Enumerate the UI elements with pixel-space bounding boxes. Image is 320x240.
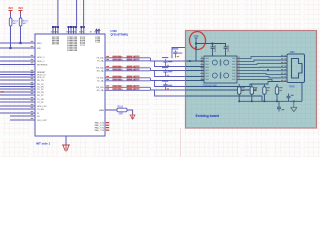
junction xyxy=(19,42,21,44)
junction xyxy=(189,60,191,62)
transformer T100 xyxy=(201,56,240,83)
svg-text:RX_2N: RX_2N xyxy=(37,92,44,94)
svg-text:J100: J100 xyxy=(290,52,296,54)
resistor R102 xyxy=(19,18,28,26)
pin numbers (red) xyxy=(106,56,109,60)
wire xyxy=(237,60,280,61)
svg-text:49R9 2B: 49R9 2B xyxy=(127,68,136,71)
junction xyxy=(264,100,266,102)
svg-text:MXI: MXI xyxy=(37,48,41,50)
junction xyxy=(212,43,214,45)
svg-text:RX_2P: RX_2P xyxy=(37,95,44,97)
resistor RT1 (termination) xyxy=(238,84,245,101)
wire xyxy=(127,110,133,115)
wire ground rail xyxy=(239,100,302,102)
wire xyxy=(0,74,35,76)
capacitor CT1 xyxy=(172,48,182,57)
MCU U100 body xyxy=(31,34,105,136)
wire xyxy=(83,0,85,27)
svg-text:Existing board: Existing board xyxy=(196,114,220,118)
junction xyxy=(9,47,11,49)
wire xyxy=(20,26,22,43)
net label xyxy=(113,85,124,91)
wire xyxy=(0,79,35,81)
wire xyxy=(0,86,35,88)
svg-text:TX_1A+: TX_1A+ xyxy=(96,57,104,60)
resistor RT3 (termination) xyxy=(263,84,270,101)
svg-text:TX_EN: TX_EN xyxy=(37,109,44,111)
svg-text:TX_2P: TX_2P xyxy=(37,102,44,104)
svg-text:49R9 4A: 49R9 4A xyxy=(127,85,136,88)
wire xyxy=(10,14,12,18)
svg-text:ETH_TX3P: ETH_TX3P xyxy=(113,86,124,88)
wire xyxy=(0,112,35,114)
svg-text:ETH_TX0N: ETH_TX0N xyxy=(113,59,124,61)
capacitor C114 xyxy=(287,94,294,102)
wire xyxy=(186,60,205,62)
svg-text:TX_2N: TX_2N xyxy=(37,99,44,101)
wire xyxy=(0,76,35,78)
top pin group 2 xyxy=(68,26,78,34)
wire xyxy=(186,80,205,82)
svg-text:ETH_TX1P: ETH_TX1P xyxy=(113,66,124,68)
power port 3V3 (right) xyxy=(18,6,23,14)
junction xyxy=(276,100,278,102)
svg-text:T100 HX1188: T100 HX1188 xyxy=(203,85,218,87)
wire xyxy=(151,58,186,61)
svg-text:INT side 1: INT side 1 xyxy=(36,141,51,145)
net label xyxy=(113,56,124,62)
wire xyxy=(0,42,35,44)
wire pair xyxy=(105,78,150,81)
svg-text:/PAD_TX3: /PAD_TX3 xyxy=(94,129,105,132)
svg-text:49R9 3B: 49R9 3B xyxy=(127,78,136,81)
wire xyxy=(0,83,35,85)
pin numbers (red) xyxy=(106,66,109,70)
pin numbers (red) xyxy=(106,122,109,131)
svg-text:R102: R102 xyxy=(23,20,29,22)
capacitor C115 xyxy=(277,101,284,111)
wire xyxy=(0,60,35,62)
resistor R103 xyxy=(117,106,127,115)
svg-text:3V3: 3V3 xyxy=(18,6,23,10)
wire xyxy=(0,47,35,49)
svg-text:49R9 1B: 49R9 1B xyxy=(127,58,136,61)
ground (region) xyxy=(291,101,297,111)
svg-text:R101: R101 xyxy=(13,20,19,22)
svg-text:RJ45: RJ45 xyxy=(289,87,295,89)
wire xyxy=(186,70,205,72)
resistor RT4 (termination) xyxy=(275,84,282,101)
junction xyxy=(238,100,240,102)
svg-text:MXO: MXO xyxy=(37,43,42,45)
wire xyxy=(237,57,280,59)
resistor R101 xyxy=(9,18,18,26)
wire xyxy=(20,14,22,18)
wire from J100 xyxy=(301,83,303,102)
svg-text:RX_1A-: RX_1A- xyxy=(97,70,105,73)
junction xyxy=(195,43,197,45)
wire pair xyxy=(105,68,150,71)
svg-text:CLK_OUT: CLK_OUT xyxy=(37,120,47,122)
capacitor CT2 xyxy=(162,57,172,66)
wire xyxy=(151,78,186,81)
wire xyxy=(237,80,280,82)
designator U100 xyxy=(111,29,129,36)
net label xyxy=(127,55,140,61)
wire xyxy=(237,70,280,72)
resistor RT2 (termination) xyxy=(250,84,257,101)
svg-text:QF5100TRMRQ: QF5100TRMRQ xyxy=(111,33,129,36)
svg-text:ETH_TX0P: ETH_TX0P xyxy=(113,56,124,58)
power port 3V3 (left) xyxy=(8,6,13,14)
wire xyxy=(237,77,280,78)
wire xyxy=(237,63,280,66)
svg-text:49R9 4B: 49R9 4B xyxy=(127,88,136,91)
svg-text:TX_1B+: TX_1B+ xyxy=(96,78,104,80)
wire xyxy=(76,0,78,27)
svg-text:ETH_TX2P: ETH_TX2P xyxy=(113,76,124,78)
junction xyxy=(251,100,253,102)
svg-text:ETH_TX3N: ETH_TX3N xyxy=(113,89,124,91)
svg-text:49R9 2A: 49R9 2A xyxy=(127,65,136,68)
junction xyxy=(195,47,197,49)
wire xyxy=(0,88,35,90)
svg-text:RX_1A+: RX_1A+ xyxy=(96,67,105,70)
wire riser to VDD rail xyxy=(172,48,196,59)
wire xyxy=(237,73,280,76)
top pin numbers xyxy=(51,30,99,33)
wire xyxy=(10,119,35,121)
net label xyxy=(113,66,124,72)
svg-text:RX_1B+: RX_1B+ xyxy=(96,87,105,89)
svg-text:GPS_CLK: GPS_CLK xyxy=(37,106,47,108)
wire xyxy=(105,109,117,111)
wire xyxy=(0,101,35,103)
wire xyxy=(151,87,186,90)
capacitor CT3 xyxy=(162,67,172,76)
svg-text:MEM: MEM xyxy=(99,110,104,112)
wire xyxy=(151,68,186,71)
wire to VDD xyxy=(57,0,59,27)
net label xyxy=(127,85,140,91)
net label xyxy=(113,76,124,82)
wire xyxy=(0,94,35,96)
wire xyxy=(186,66,205,68)
wire xyxy=(155,61,186,67)
wire xyxy=(237,66,280,68)
svg-text:TX_1B-: TX_1B- xyxy=(97,81,104,83)
no-connect pins xyxy=(95,29,100,34)
wire xyxy=(0,56,35,58)
wire xyxy=(195,41,197,62)
svg-text:49R9 3A: 49R9 3A xyxy=(127,75,136,78)
svg-text:R103: R103 xyxy=(118,106,124,108)
ground (earth) xyxy=(130,115,136,120)
svg-text:ETH_TX2N: ETH_TX2N xyxy=(113,79,124,81)
off-sheet marker xyxy=(1,91,4,92)
wire xyxy=(155,71,186,77)
wire xyxy=(186,88,257,90)
svg-text:ETH_TX1N: ETH_TX1N xyxy=(113,69,124,71)
svg-text:GPIO_1: GPIO_1 xyxy=(37,61,45,63)
wire power rail xyxy=(196,44,226,47)
wire xyxy=(155,81,186,87)
wire xyxy=(0,71,35,73)
wire xyxy=(186,76,205,78)
svg-text:33R: 33R xyxy=(119,114,124,116)
svg-text:RX_1N: RX_1N xyxy=(37,80,44,82)
pin numbers (red) xyxy=(106,85,109,89)
wire xyxy=(186,96,263,101)
designator T100 xyxy=(203,85,218,87)
connector J100 (RJ45) xyxy=(280,54,305,83)
wire pair xyxy=(105,87,150,90)
ground (earth) xyxy=(62,145,70,152)
wire xyxy=(0,105,35,107)
svg-text:TX_1P: TX_1P xyxy=(37,89,44,91)
svg-text:INT/PWDN: INT/PWDN xyxy=(37,64,48,66)
wire xyxy=(186,82,281,87)
existing-board region xyxy=(186,31,317,129)
annotation circle xyxy=(188,30,206,50)
junction xyxy=(293,100,295,102)
wire xyxy=(10,26,12,48)
wire xyxy=(0,98,35,100)
power port VDD (in region) xyxy=(193,35,198,41)
top pin group 1 xyxy=(52,26,59,34)
wire xyxy=(0,64,35,66)
pin numbers (red) xyxy=(106,76,109,80)
svg-text:3V3: 3V3 xyxy=(8,6,13,10)
wire xyxy=(10,115,35,117)
net label xyxy=(127,65,140,71)
junction xyxy=(267,69,269,71)
svg-text:RX_1B-: RX_1B- xyxy=(97,90,105,92)
svg-text:XO: XO xyxy=(37,116,40,118)
wire pair xyxy=(105,58,150,61)
wire xyxy=(65,136,67,145)
capacitor CT4 xyxy=(162,81,172,90)
svg-text:VDD: VDD xyxy=(193,35,198,38)
svg-text:49R9 1A: 49R9 1A xyxy=(127,55,136,58)
capacitor (10u) xyxy=(211,44,216,57)
wire xyxy=(0,108,35,110)
wire xyxy=(155,90,186,96)
capacitor (100n) xyxy=(224,44,229,57)
net label xyxy=(127,75,140,81)
svg-text:TX_1A-: TX_1A- xyxy=(97,60,104,63)
top pin group 3 xyxy=(80,26,85,34)
svg-text:VDD_IO: VDD_IO xyxy=(37,77,45,79)
svg-text:GPIO_2: GPIO_2 xyxy=(37,57,45,59)
wire xyxy=(0,91,35,93)
